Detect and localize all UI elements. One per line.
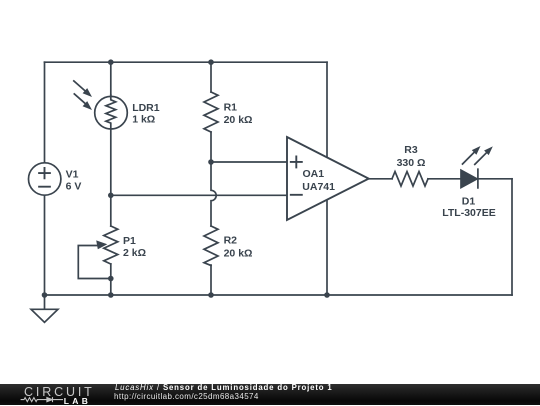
wire R2 bottom lead — [210, 265, 212, 295]
wire inverting input (LDR1-P1 node to op-amp) — [111, 194, 287, 196]
CircuitLab logo CIRCUIT — [24, 385, 95, 399]
wire R2 top lead with hop over inverting wire — [211, 162, 216, 226]
wire LDR1 bottom lead down to P1 — [110, 126, 112, 226]
label P1 — [123, 235, 146, 259]
CircuitLab logo symbol line — [0, 384, 110, 405]
resistor R2 — [204, 226, 218, 266]
svg-text:6 V: 6 V — [66, 181, 82, 193]
wire R1 bottom lead — [210, 132, 212, 162]
node bottom / P1 — [108, 292, 114, 298]
node ground — [42, 292, 48, 298]
svg-text:OA1: OA1 — [303, 168, 325, 180]
potentiometer P1 — [96, 226, 118, 264]
label R2 — [224, 235, 253, 260]
wire P1 bottom lead — [110, 264, 112, 295]
footer title text — [115, 383, 333, 392]
node top rail / LDR1 — [108, 59, 114, 65]
resistor R1 — [204, 92, 218, 132]
node R1-R2 noninverting — [208, 159, 214, 165]
wire D1 to right rail — [478, 178, 512, 180]
label V1 — [66, 168, 82, 192]
svg-text:P1: P1 — [123, 235, 136, 247]
LED D1 — [461, 169, 478, 188]
wire op-amp output to R3 — [369, 178, 392, 180]
svg-text:LTL-307EE: LTL-307EE — [442, 207, 495, 219]
label LDR1 — [132, 102, 160, 126]
D1 emission arrow 1 — [463, 146, 481, 164]
footer bar — [0, 384, 540, 405]
CircuitLab logo LAB — [64, 396, 91, 406]
node bottom / R2 — [208, 292, 214, 298]
svg-text:20 kΩ: 20 kΩ — [224, 247, 253, 259]
wire op-amp power rail vertical — [326, 62, 328, 295]
wire top rail — [45, 61, 328, 63]
svg-text:D1: D1 — [462, 195, 476, 207]
node bottom / op-amp power — [324, 292, 330, 298]
node LDR1-P1 inverting — [108, 193, 114, 199]
svg-text:LDR1: LDR1 — [132, 102, 160, 114]
wire left rail upper (top rail to V1) — [44, 62, 46, 164]
LDR1 light arrow 1 — [74, 81, 92, 97]
wire left rail lower (V1 to bottom rail) — [44, 194, 46, 295]
svg-text:20 kΩ: 20 kΩ — [224, 114, 253, 126]
label R3 — [397, 144, 426, 169]
D1 emission arrow 2 — [475, 146, 493, 164]
svg-text:330 Ω: 330 Ω — [397, 157, 426, 169]
svg-text:R1: R1 — [224, 102, 238, 114]
ground stub — [44, 295, 46, 309]
wire R3 to D1 — [428, 178, 461, 180]
label OA1 — [302, 168, 335, 193]
wire noninverting input (R1-R2 node to op-amp) — [211, 161, 287, 163]
wire right rail — [511, 179, 513, 295]
footer url text — [114, 392, 259, 401]
wire bottom rail — [45, 294, 513, 296]
wire LDR1 top lead — [110, 62, 112, 97]
svg-text:R2: R2 — [224, 235, 238, 247]
svg-text:UA741: UA741 — [302, 181, 335, 193]
resistor R3 — [392, 172, 428, 186]
ground — [31, 309, 58, 322]
svg-text:2 kΩ: 2 kΩ — [123, 247, 146, 259]
svg-text:R3: R3 — [404, 144, 418, 156]
svg-text:1 kΩ: 1 kΩ — [132, 114, 155, 126]
label D1 — [442, 195, 495, 219]
LDR1 light arrow 2 — [74, 94, 92, 110]
svg-text:V1: V1 — [66, 168, 79, 180]
op-amp OA1 — [287, 137, 369, 220]
node P1 wiper tie — [108, 276, 114, 282]
node top rail / R1 — [208, 59, 214, 65]
wire R1 top lead — [210, 62, 212, 92]
wire P1 wiper feedback — [78, 246, 111, 279]
photoresistor LDR1 — [95, 95, 128, 129]
label R1 — [224, 102, 253, 127]
voltage source V1 — [29, 163, 61, 195]
